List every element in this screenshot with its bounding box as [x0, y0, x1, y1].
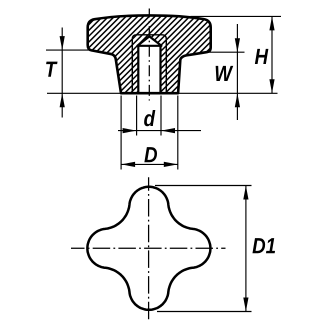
dim D arrow right — [164, 162, 178, 167]
dim d line — [118, 130, 201, 132]
dim T arrow down — [60, 36, 65, 50]
dim D extension lines — [120, 96, 122, 170]
drill point cone (chevron, thick) — [137, 36, 161, 45]
plan view vertical centerline — [148, 177, 150, 322]
label T — [46, 62, 57, 77]
label D1 — [252, 238, 275, 253]
dim H extension line top — [191, 15, 282, 17]
hatching (section lines of knob cross-section) — [11, 7, 304, 97]
dim W line — [236, 24, 238, 120]
dim D1 extension line top — [155, 185, 252, 187]
knob outline (section profile) — [88, 15, 211, 93]
dim W extension line top — [209, 51, 245, 53]
dim T extension line top — [46, 49, 91, 51]
dim D1 arrow up — [243, 186, 248, 200]
plan view horizontal centerline — [71, 247, 226, 249]
dim D arrow left — [121, 162, 135, 167]
dim d arrow right — [123, 128, 137, 133]
dim D1 extension line bottom — [157, 311, 252, 313]
dim T line — [61, 28, 63, 118]
dim W arrow up — [235, 93, 240, 107]
label D — [144, 147, 157, 162]
dim H line — [271, 16, 273, 93]
label d — [144, 110, 155, 126]
dim H arrow down — [269, 79, 274, 93]
hole void (white mask over hatch: drilled bore + drill point cone) — [139, 37, 161, 93]
dim D line — [121, 163, 178, 165]
dim D1 arrow down — [243, 298, 248, 312]
bore walls (minor diameter, thick) — [137, 45, 139, 93]
label H — [255, 49, 268, 64]
centerline front view — [148, 9, 150, 101]
dim d extension lines — [136, 96, 138, 136]
label W — [216, 66, 234, 81]
dim d arrow left — [161, 128, 175, 133]
dim D1 line — [245, 186, 247, 312]
tapped hole outer (major diameter, thin) — [132, 35, 166, 93]
plan view star knob outline — [87, 187, 210, 310]
baseline (bottom extension line) — [47, 92, 278, 94]
dim W arrow down — [235, 38, 240, 52]
dim T arrow up — [60, 93, 65, 107]
dim H arrow up — [269, 16, 274, 30]
